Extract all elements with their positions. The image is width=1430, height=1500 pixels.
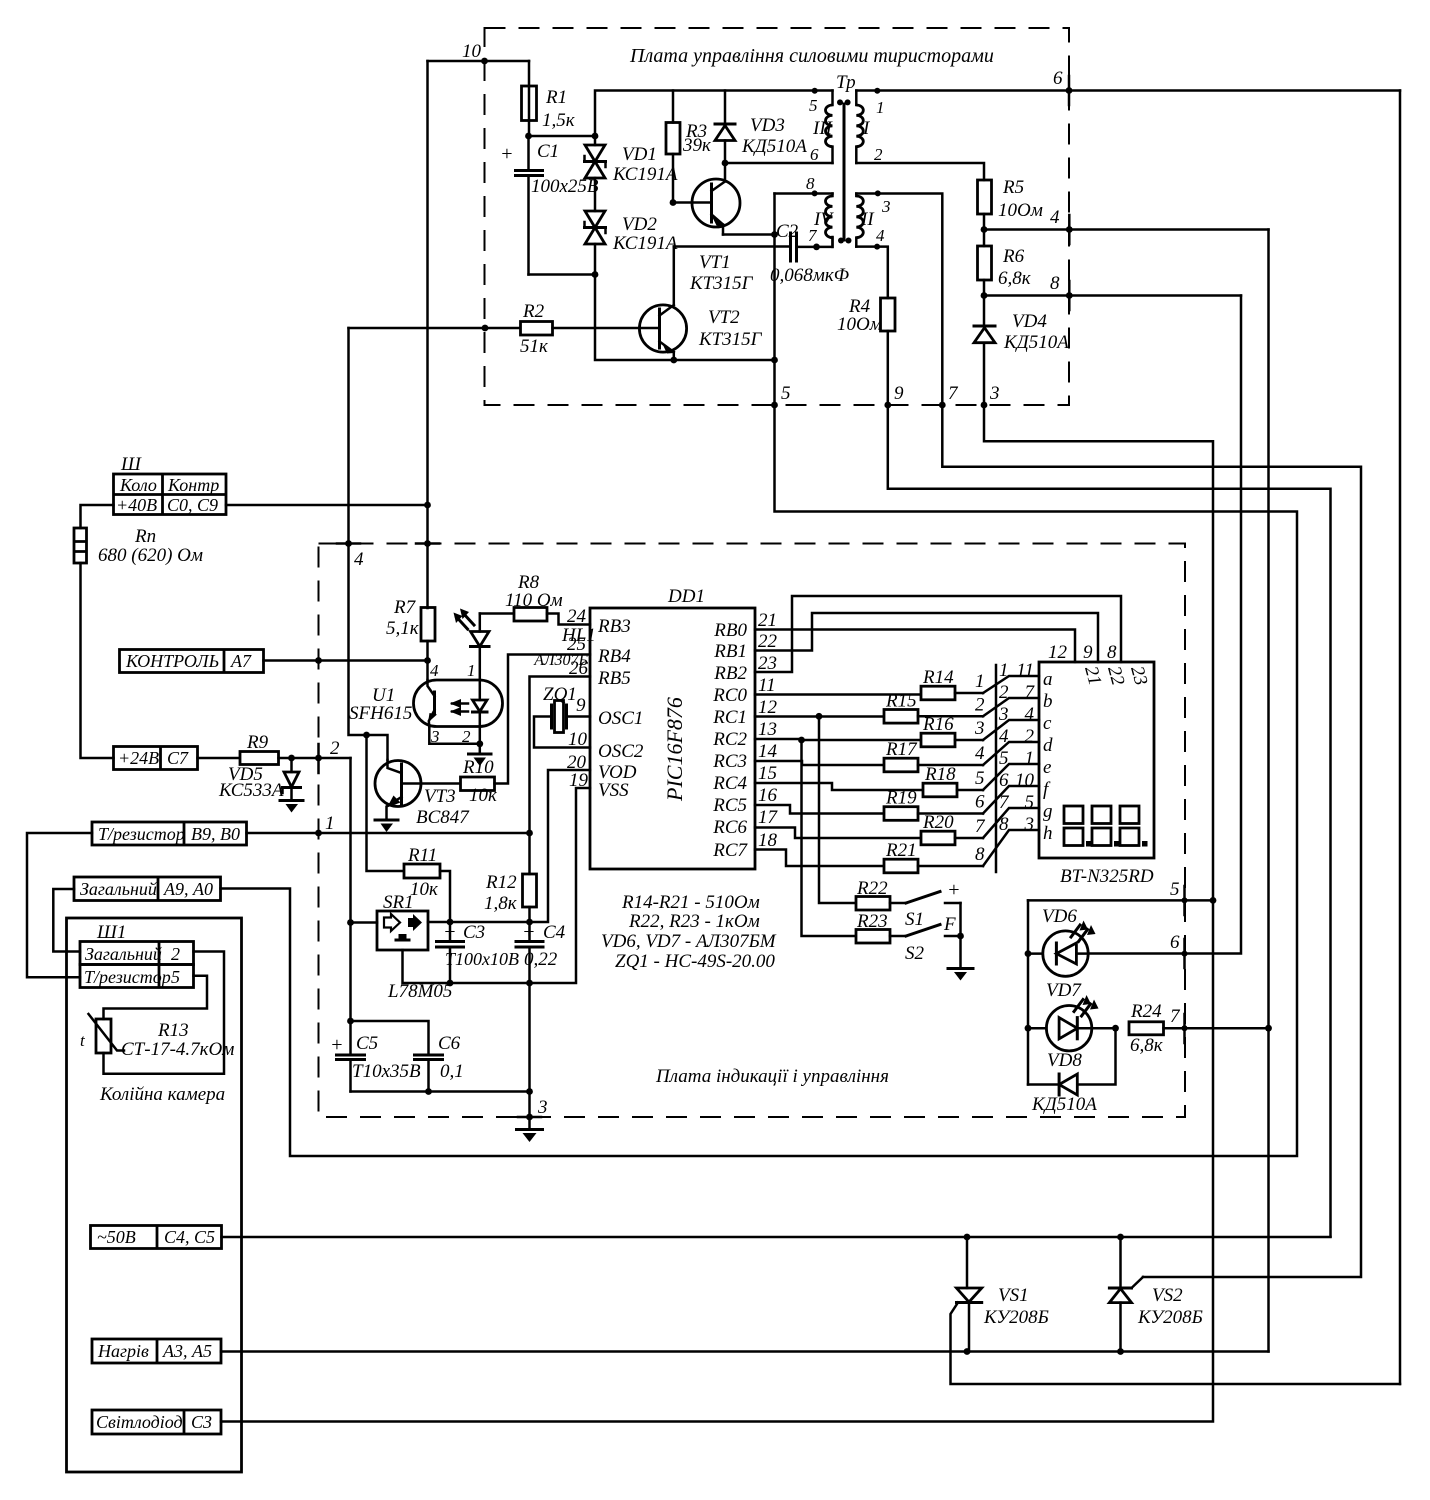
node VD1 top: [592, 133, 599, 140]
RC2 branch to R23: [798, 737, 805, 744]
svg-text:+: +: [947, 879, 961, 901]
node 10 dot on border: [481, 58, 488, 65]
zener VD5 KS533A: [218, 758, 301, 801]
svg-text:С0, С9: С0, С9: [167, 495, 218, 515]
capacitor C5: [330, 1033, 421, 1092]
svg-text:2: 2: [975, 694, 985, 715]
svg-text:КУ208Б: КУ208Б: [983, 1307, 1049, 1328]
svg-text:С5: С5: [356, 1033, 378, 1054]
svg-text:ZQ1 - HC-49S-20.00: ZQ1 - HC-49S-20.00: [615, 951, 775, 972]
wire RB1 to display pin9: [755, 613, 1098, 662]
transistor VT1 KT315G: [689, 163, 754, 294]
svg-text:7: 7: [948, 383, 959, 404]
wire node8 (R6/VD4 to border): [984, 294, 1241, 297]
transformer Tr core: [836, 72, 856, 244]
winding IV: [808, 194, 834, 247]
svg-text:КТ315Г: КТ315Г: [689, 273, 754, 294]
wire C5 net: [349, 758, 352, 1055]
svg-text:8: 8: [1107, 642, 1117, 663]
svg-text:8: 8: [1050, 273, 1060, 294]
svg-text:g: g: [1043, 801, 1053, 822]
svg-text:II: II: [860, 209, 875, 230]
svg-text:R14: R14: [922, 667, 954, 688]
svg-text:+: +: [443, 921, 457, 943]
node R1 bottom: [525, 133, 532, 140]
svg-text:0,22: 0,22: [524, 949, 558, 970]
svg-text:А7: А7: [230, 651, 252, 671]
thyristor VS2 KU208B: [1109, 1234, 1202, 1355]
svg-text:0,068мкФ: 0,068мкФ: [770, 265, 849, 286]
svg-text:39к: 39к: [682, 135, 712, 156]
resistor R17 row: [755, 761, 884, 765]
svg-text:1: 1: [467, 661, 476, 680]
svg-text:RC1: RC1: [712, 707, 747, 728]
switch S2: [905, 914, 961, 964]
svg-text:VD6, VD7 - АЛ307БМ: VD6, VD7 - АЛ307БМ: [601, 931, 777, 952]
svg-text:5,1к: 5,1к: [386, 618, 420, 639]
svg-text:b: b: [1043, 691, 1053, 712]
svg-text:Світлодіод: Світлодіод: [96, 1412, 183, 1432]
svg-text:В9, В0: В9, В0: [191, 824, 240, 844]
svg-text:VD4: VD4: [1012, 311, 1047, 332]
diode VD4 KD510A: [974, 296, 1069, 406]
svg-text:5: 5: [1170, 879, 1180, 900]
svg-text:9: 9: [894, 383, 904, 404]
svg-text:1,5к: 1,5к: [542, 110, 576, 131]
svg-text:4: 4: [975, 743, 985, 764]
wire main left vertical (+40V to U1): [426, 61, 429, 608]
svg-text:PIC16F876: PIC16F876: [662, 697, 687, 802]
wire Zagalnyi left loop to Sh1: [53, 889, 80, 952]
zener VD1 KC191A (bidirectional): [585, 136, 678, 185]
wire ground rail down to node3: [528, 983, 531, 1117]
svg-text:R1: R1: [545, 87, 567, 108]
svg-text:16: 16: [758, 785, 778, 806]
regulator SR1 L78M05: [347, 892, 452, 1002]
resistor R5: [978, 177, 1043, 230]
svg-text:10Ом: 10Ом: [837, 314, 882, 335]
svg-text:14: 14: [758, 741, 778, 762]
svg-text:С4: С4: [543, 922, 566, 943]
svg-text:5: 5: [171, 967, 180, 987]
svg-text:1,8к: 1,8к: [484, 893, 518, 914]
wire branch to R11: [367, 735, 405, 871]
svg-text:Т/резистор: Т/резистор: [84, 967, 171, 987]
svg-text:КС191А: КС191А: [612, 233, 678, 254]
ground (VT3): [375, 820, 398, 832]
svg-text:8: 8: [806, 174, 815, 193]
resistor R22: [856, 878, 906, 910]
+5V rail from SR1: [428, 770, 590, 922]
winding II: [856, 194, 890, 247]
wire T/rezystor to RB5 node: [247, 832, 530, 835]
resistor R24: [1129, 1001, 1269, 1056]
resistor R18 row: [755, 783, 923, 790]
svg-text:R6: R6: [1002, 246, 1025, 267]
svg-text:51к: 51к: [520, 336, 549, 357]
svg-text:8: 8: [999, 814, 1009, 835]
svg-text:4: 4: [1025, 704, 1035, 725]
svg-text:+: +: [522, 921, 536, 943]
wire pin8 column (winding IV-8 down to board pin 5): [773, 194, 776, 406]
svg-text:OSC2: OSC2: [598, 741, 644, 762]
wire node4 (R5/R6 to border): [984, 228, 1269, 231]
wire pin4 of II to R4: [856, 247, 888, 298]
wire pin3 of II to board pin7: [856, 194, 942, 406]
svg-text:5: 5: [999, 748, 1009, 769]
resistor R15 row: [755, 715, 884, 718]
svg-text:S2: S2: [905, 943, 925, 964]
connector T/rezystor B9,B0: [92, 822, 247, 845]
svg-text:OSC1: OSC1: [598, 708, 643, 729]
border crossing x=427.5: [424, 540, 431, 547]
resistor R20 row: [755, 828, 921, 839]
svg-text:5: 5: [781, 383, 791, 404]
svg-text:1: 1: [1025, 748, 1035, 769]
svg-text:R23: R23: [856, 911, 888, 932]
wire board pin9 to VS anode rail: [888, 405, 1331, 1237]
wire VD1-VD2: [594, 178, 597, 211]
connector Svitlodiod C3: [92, 1410, 221, 1434]
svg-text:R20: R20: [922, 812, 954, 833]
board: Плата управління силовими тиристорами (dashed box): [485, 28, 1070, 405]
svg-text:17: 17: [758, 807, 779, 828]
resistor R16 row: [755, 739, 921, 740]
svg-text:10: 10: [1015, 770, 1035, 791]
svg-text:19: 19: [569, 770, 589, 791]
svg-text:Плата індикації і управління: Плата індикації і управління: [655, 1066, 889, 1087]
ground (node 3): [517, 1130, 543, 1143]
resistor R14 row: [755, 693, 921, 696]
svg-text:25: 25: [567, 634, 586, 655]
connector table Sh: [114, 454, 227, 515]
svg-text:4: 4: [430, 661, 439, 680]
svg-text:R5: R5: [1002, 177, 1024, 198]
svg-text:11: 11: [758, 675, 776, 696]
svg-text:VSS: VSS: [598, 780, 629, 801]
wire +40V node 10 horizontal: [428, 60, 530, 63]
svg-text:R12: R12: [485, 872, 517, 893]
svg-text:R2: R2: [522, 301, 545, 322]
seven-segment digits 8.8.8.: [27, 454, 1400, 1472]
svg-text:VD6: VD6: [1042, 906, 1077, 927]
svg-text:С4, С5: С4, С5: [164, 1227, 215, 1247]
svg-text:Тр: Тр: [836, 72, 856, 93]
svg-text:VS1: VS1: [998, 1285, 1029, 1306]
svg-text:Коло: Коло: [119, 475, 157, 495]
ground rail (SR1 bottom): [403, 788, 591, 983]
diode VD3 KD510A: [715, 91, 807, 164]
LED HL1 AL307B: [454, 609, 596, 681]
svg-text:13: 13: [758, 719, 777, 740]
resistor R8: [480, 572, 590, 625]
capacitor C6: [351, 1021, 464, 1092]
RC1 branch to R22: [816, 713, 823, 720]
wire Sh1 pin5 to R13 top: [104, 976, 208, 1019]
wire board pin3 to node3 vertical: [221, 405, 1213, 1422]
svg-text:R21: R21: [885, 840, 917, 861]
svg-text:10: 10: [462, 41, 482, 62]
svg-text:RB0: RB0: [713, 620, 747, 641]
svg-text:RC0: RC0: [712, 685, 747, 706]
svg-text:7: 7: [999, 792, 1010, 813]
capacitor C3: [437, 921, 520, 983]
svg-text:R7: R7: [393, 597, 417, 618]
svg-text:RB1: RB1: [713, 641, 747, 662]
LED VD6: [1028, 906, 1188, 976]
wire Sh1 pin2 to R13 bottom: [104, 952, 225, 1074]
svg-text:RB2: RB2: [713, 663, 747, 684]
svg-text:R19: R19: [885, 788, 917, 809]
resistor R19 row: [755, 805, 884, 814]
wire Nahriv to VS cathode rail: [221, 1350, 1269, 1353]
svg-text:Т10х35В: Т10х35В: [352, 1061, 421, 1082]
svg-text:+: +: [330, 1034, 344, 1056]
wire RB0 to display pin12: [755, 630, 1075, 663]
wire T/rezystor left loop to Sh1: [27, 833, 92, 977]
svg-text:СТ-17-4.7кОм: СТ-17-4.7кОм: [121, 1039, 234, 1060]
svg-text:7: 7: [1170, 1006, 1181, 1027]
connector ~50V C4,C5: [91, 1226, 222, 1249]
ladder bus line: [995, 665, 998, 872]
winding I: [856, 88, 884, 164]
wire pin2 to R5: [856, 163, 984, 180]
wire ~50V to VS anode rail: [222, 1236, 1331, 1239]
bottom rail C5/C6 to node3: [351, 1090, 530, 1093]
svg-text:9: 9: [576, 695, 586, 716]
ground (S1/S2): [948, 969, 973, 981]
node 3 on bottom border: [526, 1114, 533, 1121]
capacitor C4: [516, 921, 566, 983]
svg-text:4: 4: [999, 726, 1009, 747]
svg-text:VD8: VD8: [1047, 1050, 1082, 1071]
svg-text:Нагрів: Нагрів: [97, 1341, 149, 1361]
crystal ZQ1: [534, 684, 590, 748]
svg-text:Плата управління силовими тири: Плата управління силовими тиристорами: [629, 45, 994, 67]
svg-text:R10: R10: [462, 757, 494, 778]
svg-text:2: 2: [874, 145, 883, 164]
svg-text:24: 24: [567, 606, 587, 627]
svg-text:c: c: [1043, 713, 1052, 734]
winding III: [809, 88, 834, 164]
svg-text:15: 15: [758, 763, 777, 784]
resistor R12: [484, 872, 537, 922]
svg-text:RC7: RC7: [712, 840, 748, 861]
node +40V junction: [424, 502, 431, 509]
svg-text:d: d: [1043, 735, 1053, 756]
svg-text:10к: 10к: [469, 785, 498, 806]
svg-text:R14-R21 - 510Ом: R14-R21 - 510Ом: [621, 892, 760, 913]
resistor R1: [522, 61, 576, 136]
connector KONTROL A7: [120, 650, 428, 673]
wire pin8 horizontal: [775, 192, 833, 195]
svg-text:11: 11: [1016, 660, 1034, 681]
svg-text:RC3: RC3: [712, 751, 747, 772]
svg-text:VD3: VD3: [750, 115, 785, 136]
svg-text:КС533А: КС533А: [218, 780, 284, 801]
wire collector node to pin6 of Tr: [725, 162, 833, 165]
wire display "5" line: [1028, 899, 1213, 902]
svg-text:С3: С3: [191, 1412, 212, 1432]
wire node8 vertical down to VD6 line: [1089, 296, 1242, 954]
svg-text:6,8к: 6,8к: [998, 268, 1032, 289]
svg-text:RB3: RB3: [597, 616, 631, 637]
svg-text:VS2: VS2: [1152, 1285, 1183, 1306]
resistor R3: [666, 91, 712, 203]
svg-text:R22, R23 - 1кОм: R22, R23 - 1кОм: [628, 911, 760, 932]
wire board pin5 to node5 routing: [221, 405, 1298, 1156]
wire RB5 net (MCU to R12): [530, 677, 591, 875]
svg-text:R24: R24: [1130, 1001, 1162, 1022]
resistor R2: [349, 301, 660, 357]
wire R2 net vertical to U1 pin3 region: [349, 328, 388, 760]
svg-text:ZQ1: ZQ1: [543, 684, 577, 705]
annotation text block: [601, 892, 777, 972]
svg-text:9: 9: [1083, 642, 1093, 663]
U1 pins 3,2 bracket and ground: [429, 727, 480, 753]
resistor R11: [404, 845, 450, 922]
ground (VD5): [280, 801, 303, 813]
connector Zagalnyi A9,A0: [74, 877, 221, 901]
resistor Rn (ballast): [74, 526, 203, 758]
wire RB2 to display pin8: [755, 596, 1121, 672]
svg-text:VD1: VD1: [622, 144, 657, 165]
svg-text:12: 12: [758, 697, 778, 718]
resistor R9: [198, 732, 351, 765]
svg-text:Т/резистор: Т/резистор: [98, 824, 185, 844]
svg-text:Ш1: Ш1: [96, 922, 126, 943]
svg-text:BC847: BC847: [416, 807, 470, 828]
svg-text:2: 2: [171, 944, 180, 964]
svg-text:DD1: DD1: [667, 586, 705, 607]
optocoupler U1 SFH615: [349, 661, 503, 746]
svg-text:5: 5: [975, 768, 985, 789]
wire pin1 to node6 rail: [856, 89, 1400, 92]
svg-text:VT3: VT3: [424, 786, 456, 807]
svg-text:RC4: RC4: [712, 773, 747, 794]
svg-text:7: 7: [1025, 682, 1036, 703]
svg-text:А9, А0: А9, А0: [163, 879, 213, 899]
svg-text:3: 3: [989, 383, 1000, 404]
transistor VT2 KT315G: [639, 247, 762, 361]
svg-text:С7: С7: [167, 748, 189, 768]
svg-text:8: 8: [975, 844, 985, 865]
svg-text:RC2: RC2: [712, 729, 747, 750]
svg-text:Колійна камера: Колійна камера: [99, 1084, 225, 1105]
svg-text:III: III: [812, 118, 834, 139]
resistor R6: [978, 230, 1032, 296]
svg-text:2: 2: [999, 682, 1009, 703]
svg-text:680 (620) Ом: 680 (620) Ом: [98, 545, 203, 566]
node R7 bottom / KONTROL: [424, 657, 431, 664]
node VT1 collector / VD3: [722, 160, 729, 167]
svg-text:КУ208Б: КУ208Б: [1137, 1307, 1203, 1328]
wire R3 to VT1 base: [673, 201, 712, 204]
wire node4 vertical down: [1267, 230, 1270, 1352]
svg-text:Загальний: Загальний: [85, 944, 162, 964]
svg-text:2: 2: [330, 738, 340, 759]
svg-text:R13: R13: [157, 1020, 189, 1041]
svg-text:R11: R11: [407, 845, 437, 866]
wire C1 bottom to VD2 bottom: [529, 273, 596, 276]
svg-text:L78M05: L78M05: [387, 981, 452, 1002]
svg-text:VT1: VT1: [699, 252, 731, 273]
svg-text:R22: R22: [856, 878, 888, 899]
svg-text:e: e: [1043, 757, 1051, 778]
svg-text:КД510А: КД510А: [741, 136, 807, 157]
svg-text:10к: 10к: [410, 879, 439, 900]
thermistor R13 ST-17-4.7kOm: [80, 1014, 234, 1105]
svg-text:12: 12: [1048, 642, 1068, 663]
svg-text:6: 6: [975, 792, 985, 813]
wire VT1 emitter to pin8 column: [723, 233, 775, 236]
wire R1 to VD1 rail: [529, 135, 596, 138]
svg-text:С1: С1: [537, 141, 559, 162]
svg-text:VT2: VT2: [708, 307, 740, 328]
svg-text:Контр: Контр: [167, 475, 219, 495]
svg-text:6: 6: [999, 770, 1009, 791]
svg-text:5: 5: [809, 96, 818, 115]
display BT-N325RD: [1039, 662, 1154, 887]
svg-text:Rn: Rn: [134, 526, 156, 547]
svg-text:R9: R9: [246, 732, 269, 753]
svg-text:SR1: SR1: [383, 892, 414, 913]
svg-text:Загальний: Загальний: [80, 879, 157, 899]
board: Плата індикації і управління (dashed box): [319, 544, 1186, 1118]
svg-text:10Ом: 10Ом: [998, 200, 1043, 221]
svg-text:7: 7: [975, 816, 986, 837]
wire node6 vertical down right side: [1399, 91, 1402, 1385]
wire +40V to Rn: [81, 505, 114, 528]
svg-text:6: 6: [1053, 68, 1063, 89]
wire VD1 col up to pin5 rail: [595, 91, 833, 137]
wire board pin7 to VS2 gate: [942, 405, 1361, 1277]
svg-text:КД510А: КД510А: [1003, 332, 1069, 353]
svg-text:2: 2: [1025, 726, 1035, 747]
diode VD8 KD510A: [1077, 1028, 1115, 1084]
wire VT2 collector rail to C2: [674, 245, 790, 248]
svg-text:+40В: +40В: [116, 495, 157, 515]
border pin 4 (x=348.5): [345, 540, 352, 547]
svg-text:VD2: VD2: [622, 214, 657, 235]
microcontroller DD1 PIC16F876: [567, 586, 779, 869]
svg-text:3: 3: [974, 718, 985, 739]
svg-text:+24В: +24В: [118, 748, 159, 768]
svg-text:h: h: [1043, 823, 1053, 844]
svg-text:26: 26: [569, 658, 589, 679]
svg-text:6,8к: 6,8к: [1130, 1035, 1164, 1056]
svg-text:3: 3: [881, 197, 891, 216]
svg-text:3: 3: [998, 704, 1009, 725]
svg-text:F: F: [943, 914, 956, 935]
node 6 on border: [1066, 87, 1073, 94]
svg-text:6: 6: [810, 145, 819, 164]
svg-text:R16: R16: [922, 714, 954, 735]
svg-text:R18: R18: [924, 764, 956, 785]
svg-text:RC5: RC5: [712, 795, 747, 816]
svg-text:КОНТРОЛЬ: КОНТРОЛЬ: [125, 651, 219, 671]
resistor R21 row: [755, 850, 884, 867]
node R3 bottom / VT1 base: [670, 199, 677, 206]
ground (U1 pin2): [469, 754, 492, 766]
svg-text:110 Ом: 110 Ом: [505, 590, 563, 611]
svg-text:+: +: [500, 143, 514, 165]
svg-text:С2: С2: [776, 221, 799, 242]
svg-text:0,1: 0,1: [440, 1061, 464, 1082]
svg-text:22: 22: [758, 631, 778, 652]
resistor R7: [386, 597, 435, 641]
wire VD2 bottom to emitter rail: [595, 275, 775, 361]
